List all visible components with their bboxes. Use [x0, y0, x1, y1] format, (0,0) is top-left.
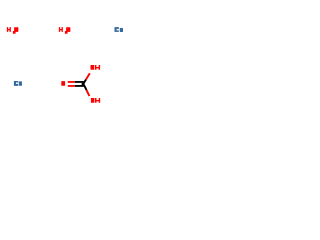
water molecule 1 label H2O	[7, 27, 19, 34]
C-OH lower bond red part	[87, 90, 90, 96]
carbonic acid skeleton	[61, 73, 90, 96]
hydroxyl OH lower	[91, 98, 100, 103]
C-OH upper bond red part	[86, 73, 90, 79]
C-OH upper bond black part	[83, 80, 86, 84]
C-OH lower bond black part	[84, 84, 87, 90]
double-bonded O (left)	[61, 81, 65, 86]
potassium cation K+ left	[14, 81, 22, 86]
O of H2O #2	[66, 27, 70, 32]
H of H2O #1	[7, 27, 11, 32]
C=O double bond lower line black half	[75, 85, 84, 87]
subscript 2 of H2O #2	[65, 31, 68, 34]
O of H2O #1	[14, 27, 18, 32]
C=O double bond upper line red half	[68, 81, 75, 83]
subscript 2 of H2O #1	[13, 31, 16, 34]
potassium cation K+ top right	[115, 27, 124, 32]
H of H2O #2	[59, 27, 63, 32]
C=O double bond lower line red half	[68, 85, 75, 87]
C=O double bond upper line black half	[75, 81, 84, 83]
hydroxyl OH upper	[91, 65, 101, 70]
carbon vertex wedge	[81, 81, 84, 87]
water molecule 2 label H2O	[59, 27, 71, 34]
